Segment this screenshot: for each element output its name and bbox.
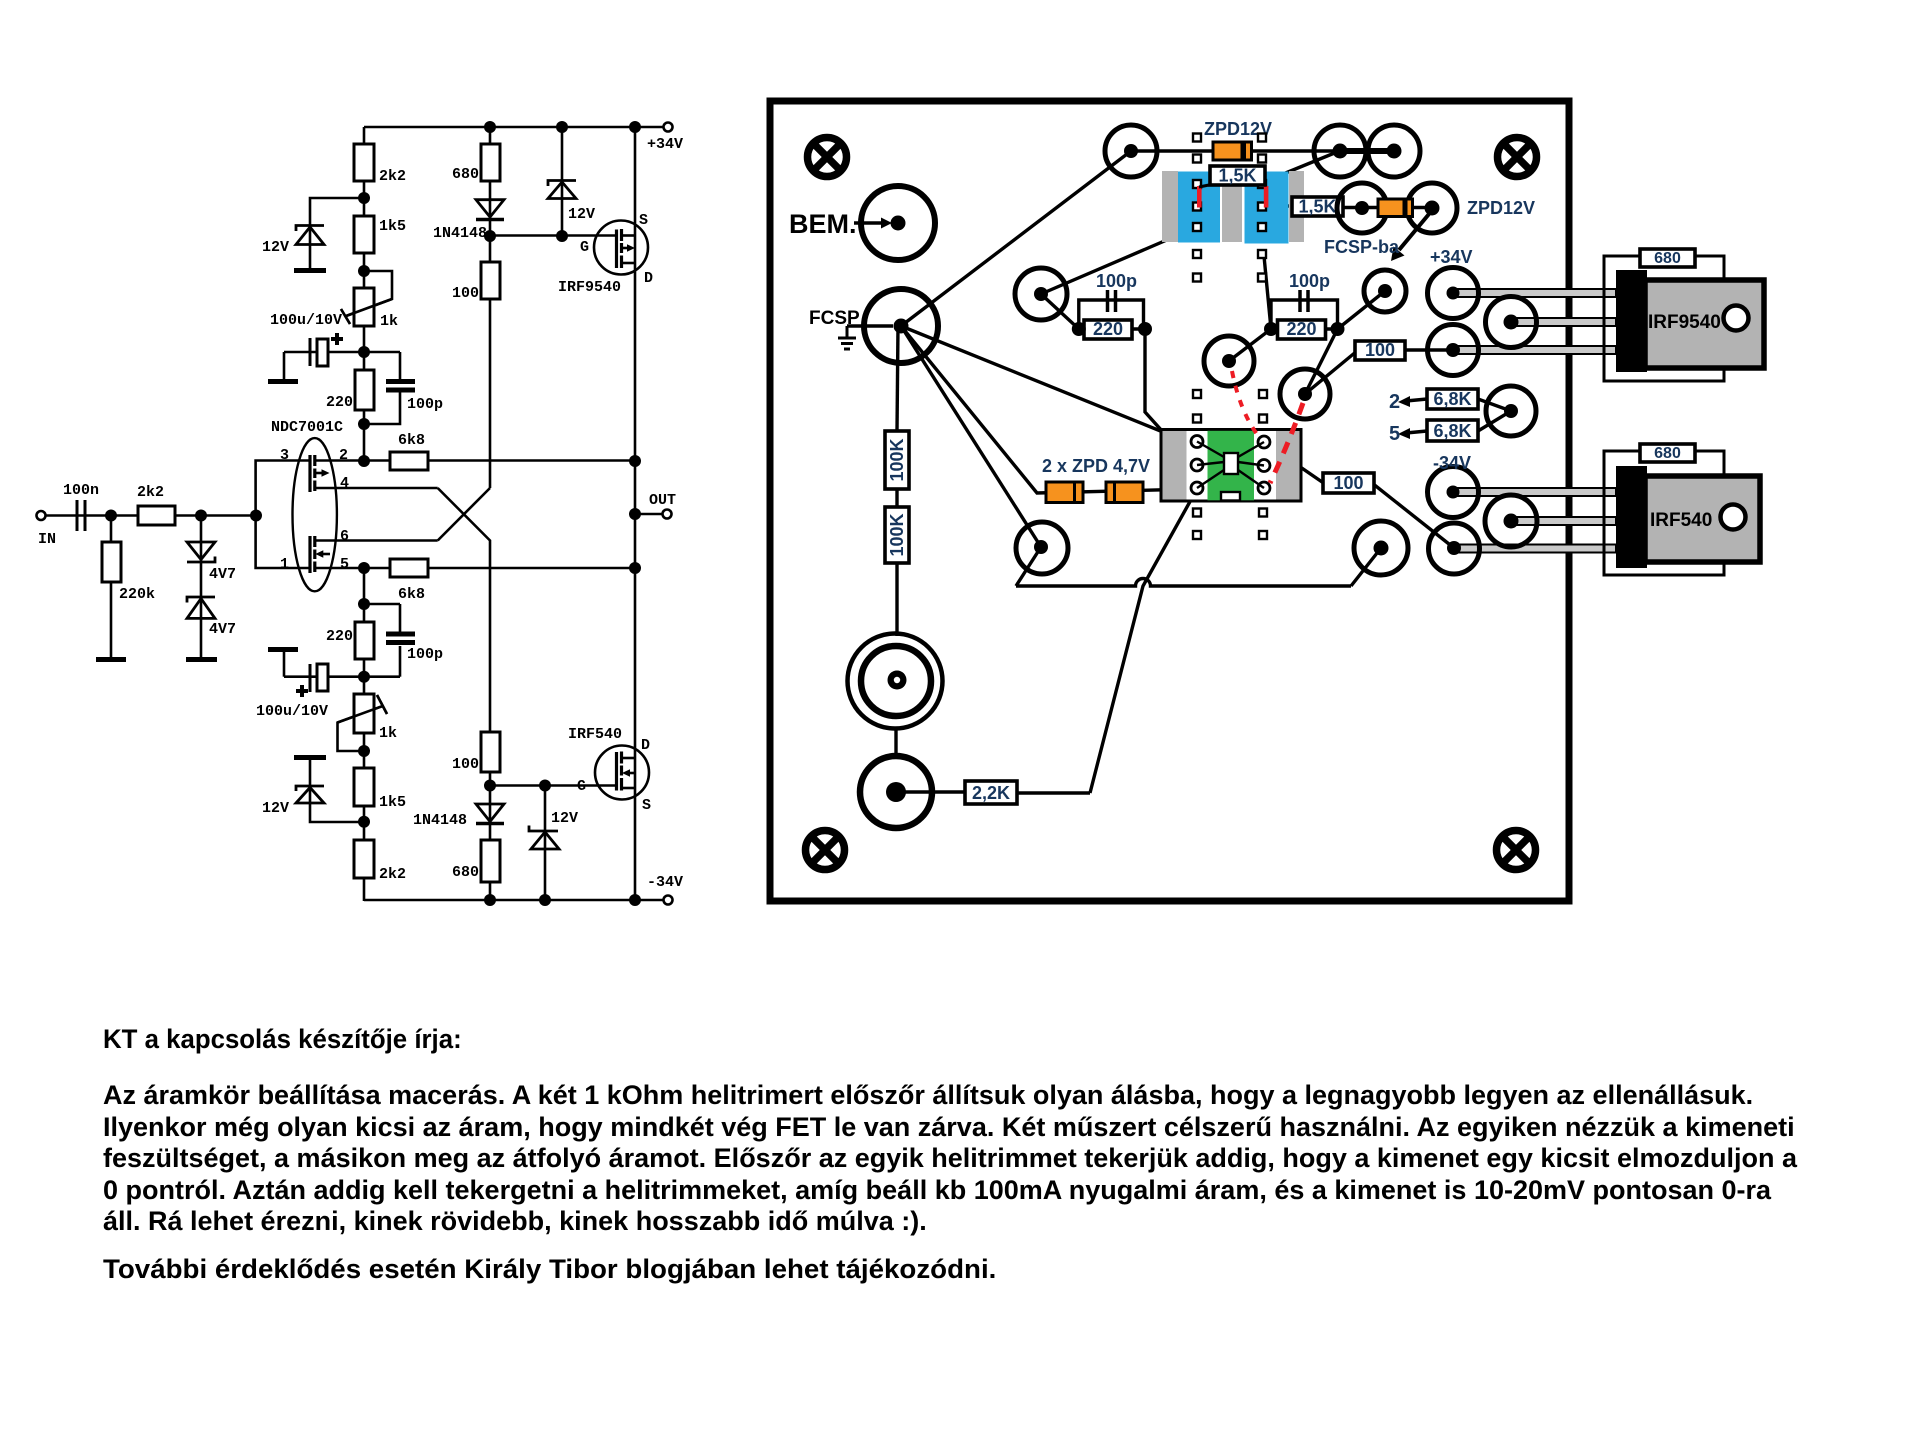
- ground elco top: [268, 379, 298, 384]
- svg-text:-34V: -34V: [647, 874, 683, 891]
- op-amp IC NDC7001C body: [293, 438, 337, 591]
- wire zener12V bottom-left branch: [310, 760, 364, 822]
- zener 12V top-left: [296, 226, 324, 245]
- capacitor 100p pcb right: [1300, 290, 1308, 312]
- resistor ZPD12V right: [1378, 199, 1413, 217]
- arrowhead 6,8K no2: [1398, 396, 1410, 407]
- capacitor 100u/10V top: [310, 333, 343, 366]
- mount hole bottom-left: [806, 831, 845, 870]
- wire FCSP down to 100K: [897, 326, 898, 431]
- svg-text:680: 680: [452, 166, 479, 183]
- label box 680 bottom pkg: [1640, 444, 1695, 462]
- trimmer block blue left gray: [1162, 171, 1178, 242]
- capacitor 100p bottom: [386, 632, 415, 646]
- wire pad to right220 left node: [1229, 329, 1271, 361]
- wire trimmer B wiper diagonal redraw: [338, 706, 382, 722]
- svg-text:1,5K: 1,5K: [1298, 197, 1336, 217]
- svg-text:S: S: [639, 212, 648, 229]
- svg-text:100K: 100K: [887, 513, 907, 556]
- svg-text:220: 220: [326, 394, 353, 411]
- svg-text:6k8: 6k8: [398, 432, 425, 449]
- wire pin5 line: [315, 567, 636, 570]
- svg-text:220k: 220k: [119, 586, 155, 603]
- red dashed link 2: [1270, 403, 1303, 483]
- terminal OUT: [663, 510, 672, 519]
- trimmer block blue right gray: [1289, 171, 1304, 242]
- svg-text:D: D: [641, 737, 650, 754]
- resistor 220 top: [355, 370, 374, 410]
- svg-text:680: 680: [1654, 250, 1681, 267]
- wire ring to 100 box2: [1264, 442, 1325, 484]
- wire trapezoid left: [1016, 547, 1041, 586]
- svg-text:680: 680: [452, 864, 479, 881]
- node rail-zener12V: [556, 121, 568, 133]
- label box 100 no1: [1355, 340, 1405, 360]
- pad 100p left: [1015, 268, 1067, 320]
- label box 100K no1: [885, 431, 909, 489]
- trimmer block blue square 1: [1178, 172, 1220, 243]
- node pin2 node: [358, 455, 370, 467]
- ground 220k: [96, 657, 126, 662]
- mount hole bottom-right: [1497, 831, 1536, 870]
- svg-text:S: S: [642, 797, 651, 814]
- svg-text:100: 100: [452, 756, 479, 773]
- trimmer 1k bottom: [354, 694, 374, 733]
- pad mid left: [1204, 336, 1254, 386]
- resistor 220 bottom: [355, 622, 374, 659]
- lead IRF9540 pin1: [1453, 289, 1616, 297]
- svg-text:NDC7001C: NDC7001C: [271, 419, 343, 436]
- wire 220 right bottom: [1271, 327, 1338, 330]
- wire pin4 line: [315, 487, 438, 490]
- svg-text:1k: 1k: [379, 725, 397, 742]
- pad IRF9540 mid: [1486, 297, 1537, 348]
- node bus pin2: [629, 455, 641, 467]
- lead IRF9540 pin3: [1453, 346, 1616, 354]
- resistor 100 top: [481, 262, 500, 299]
- wire FCSP fan to 220 merge: [901, 326, 1163, 432]
- trimmer block green right gray: [1276, 431, 1300, 500]
- wire 100p B bottom: [399, 646, 402, 677]
- node 2k2/1k5 zener tap: [358, 192, 370, 204]
- capacitor 100p pcb left: [1108, 290, 1116, 312]
- resistor 2k2 bottom: [354, 840, 374, 878]
- wire trimmer A wiper diagonal redraw: [338, 299, 393, 723]
- node rail-bus: [629, 121, 641, 133]
- label box 6,8K no2: [1427, 420, 1478, 441]
- trimmer block green outline: [1161, 430, 1301, 502]
- svg-text:6,8K: 6,8K: [1433, 389, 1471, 409]
- wire cross diagonal pin6 up: [438, 488, 490, 541]
- svg-text:2k2: 2k2: [137, 484, 164, 501]
- svg-text:2: 2: [339, 447, 348, 464]
- transistor IRF9540: [594, 221, 648, 275]
- wire 12V zener bottom column: [544, 786, 547, 901]
- svg-text:100u/10V: 100u/10V: [270, 312, 342, 329]
- resistor 680 top: [481, 144, 500, 181]
- wire FCSP to top pad: [901, 151, 1131, 326]
- pad trapezoid right: [1354, 521, 1408, 575]
- wire left pad to blue pad diagonal: [1041, 227, 1197, 294]
- wire big pad to lower pad: [894, 728, 897, 757]
- wire node352 horizontal: [284, 351, 400, 354]
- label box 2,2K: [965, 781, 1017, 804]
- mount hole top-right: [1498, 138, 1537, 177]
- svg-text:4: 4: [340, 475, 349, 492]
- trimmer block blue center gray: [1222, 181, 1242, 242]
- svg-text:12V: 12V: [262, 239, 289, 256]
- package IRF9540 body: [1616, 270, 1647, 372]
- wire 100 box1 to +34V pad3: [1403, 348, 1453, 351]
- wire top gate line: [490, 234, 617, 237]
- mount hole top-left: [808, 138, 847, 177]
- terminal IN: [37, 511, 46, 520]
- svg-text:-34V: -34V: [1433, 453, 1471, 473]
- svg-text:100: 100: [452, 285, 479, 302]
- ground zener bottom-left: [294, 755, 326, 760]
- wire elco B ground rise: [283, 651, 286, 677]
- package IRF9540 tab: [1645, 280, 1764, 368]
- svg-text:OUT: OUT: [649, 492, 676, 509]
- terminal -34V: [664, 896, 673, 905]
- transistor IC top FET: [310, 455, 330, 492]
- pad IRF540 low: [1429, 523, 1480, 574]
- pad IRF540 mid: [1485, 495, 1537, 547]
- svg-text:D: D: [644, 270, 653, 287]
- wire trimmer B wiper tick: [377, 695, 387, 714]
- pad FCSPba target: [1364, 270, 1406, 312]
- svg-text:+34V: +34V: [1430, 247, 1473, 267]
- pad FCSP: [864, 289, 938, 363]
- svg-text:5: 5: [1389, 423, 1400, 445]
- svg-text:100p: 100p: [1289, 271, 1330, 291]
- wire FCSP fan to ZPD corner: [901, 326, 1194, 493]
- wire FCSP fan to lower pad: [901, 326, 1041, 547]
- svg-text:100p: 100p: [407, 646, 443, 663]
- wire input line: [45, 514, 256, 517]
- zener 12V bottom-mid: [529, 826, 559, 850]
- lead IRF9540 pin2: [1511, 318, 1616, 326]
- wire pad to 100 box1: [1305, 351, 1357, 394]
- pad trapezoid left: [1016, 522, 1068, 574]
- node pin5 node: [358, 562, 370, 574]
- wire left pad to 220 left node: [1041, 294, 1079, 329]
- wire 1,5K no2 to ZPD12V right: [1340, 206, 1432, 209]
- wire bottom gate line: [490, 784, 617, 787]
- transistor IC bottom FET: [310, 536, 330, 573]
- ground elco bottom: [268, 647, 298, 652]
- trimmer block green notch: [1221, 492, 1240, 501]
- svg-text:1: 1: [280, 556, 289, 573]
- wire 1,5K no2 left stub: [1266, 204, 1295, 207]
- svg-text:ZPD12V: ZPD12V: [1467, 198, 1535, 218]
- node 1k5/trimmer wiper tap: [358, 265, 370, 277]
- svg-text:12V: 12V: [262, 800, 289, 817]
- zener 4V7 lower: [187, 597, 215, 618]
- wire right 220 to FCSPba pad: [1338, 291, 1386, 329]
- package IRF9540 hole: [1724, 306, 1749, 331]
- wire zener12V top-left branch: [310, 198, 364, 268]
- wire 100p-220 right loop: [1271, 300, 1338, 329]
- svg-text:100K: 100K: [887, 438, 907, 481]
- svg-text:100: 100: [1365, 340, 1395, 360]
- wire FCSP ground stub: [847, 324, 893, 327]
- resistor 1k5 bottom: [354, 768, 374, 806]
- node gate line A left: [484, 230, 496, 242]
- transistor IRF540: [595, 746, 649, 800]
- pad mid right: [1280, 369, 1330, 419]
- package IRF540 body: [1616, 466, 1647, 568]
- svg-text:220: 220: [1286, 319, 1316, 339]
- svg-text:6k8: 6k8: [398, 586, 425, 603]
- wire 100p B top: [399, 604, 402, 635]
- diode ZPD4,7 b: [1106, 482, 1143, 503]
- resistor 220k: [102, 542, 121, 582]
- resistor 100 bottom: [481, 732, 500, 772]
- svg-text:2k2: 2k2: [379, 168, 406, 185]
- svg-text:G: G: [577, 778, 586, 795]
- wire 2,2K diagonal to green with hop: [1090, 489, 1197, 793]
- wire pin2 line: [315, 459, 636, 462]
- svg-text:100p: 100p: [407, 396, 443, 413]
- svg-text:FCSP: FCSP: [809, 308, 860, 329]
- node elco node B: [358, 671, 370, 683]
- pad ZPD12V left: [1314, 125, 1366, 177]
- svg-text:2: 2: [1389, 391, 1400, 413]
- label box 6,8K no1: [1427, 389, 1478, 409]
- trimmer block green center: [1208, 431, 1255, 501]
- label box 220 left: [1084, 319, 1132, 339]
- wire cross diagonal pin4 down: [438, 488, 490, 901]
- pads square column right of blue: [1258, 134, 1266, 282]
- node rail-zener B: [539, 894, 551, 906]
- svg-text:IRF9540: IRF9540: [558, 279, 621, 296]
- label box 100K no2: [885, 507, 909, 563]
- svg-text:1,5K: 1,5K: [1218, 166, 1256, 186]
- svg-text:220: 220: [326, 628, 353, 645]
- pad top center: [1105, 125, 1157, 177]
- wire OUT stub: [635, 513, 662, 516]
- resistor 6k8 top: [390, 452, 428, 470]
- resistor 2k2 input: [138, 506, 175, 525]
- resistor 1k5 top: [354, 216, 374, 253]
- pad ZPD12V right: [1368, 125, 1420, 177]
- wire pad pair link top: [1340, 148, 1394, 154]
- diode ZPD4,7 a: [1046, 482, 1083, 503]
- wire -34V bottom rail: [364, 899, 664, 902]
- svg-text:1N4148: 1N4148: [433, 225, 487, 242]
- red mark right trimmer: [1264, 186, 1269, 208]
- capacitor 100u/10V bottom: [296, 664, 328, 697]
- node bus pin5: [629, 562, 641, 574]
- pad 6,8K: [1486, 386, 1536, 436]
- svg-text:12V: 12V: [551, 810, 578, 827]
- node input 4V7: [195, 510, 207, 522]
- diode 1N4148 top: [476, 200, 504, 220]
- node zener tap B: [358, 816, 370, 828]
- pad ZPD12V right pair a: [1337, 183, 1387, 233]
- wire blue pad to top pad diagonal: [1266, 152, 1337, 181]
- resistor 680 bottom: [481, 840, 500, 882]
- wire node676 horizontal: [284, 675, 400, 678]
- wire pad to 2,2K: [896, 790, 965, 793]
- node gate line B left: [484, 780, 496, 792]
- svg-text:G: G: [580, 239, 589, 256]
- wire 100p A: [399, 352, 402, 380]
- wire elco A ground drop: [283, 352, 286, 379]
- node 100p node A: [358, 418, 370, 430]
- svg-text:1k5: 1k5: [379, 218, 406, 235]
- node bus OUT: [629, 508, 641, 520]
- trimmer block green center square: [1224, 453, 1238, 474]
- wire 220 left node down to green: [1145, 329, 1197, 464]
- node gate line A zener: [556, 230, 568, 242]
- package IRF9540 outline: [1604, 256, 1724, 381]
- svg-text:1N4148: 1N4148: [413, 812, 467, 829]
- node input IC bus: [250, 510, 262, 522]
- wire 100 box2 to -34V pad3: [1372, 483, 1454, 548]
- svg-text:3: 3: [280, 447, 289, 464]
- diode 1N4148 bottom: [476, 804, 504, 824]
- wire right output bus: [634, 127, 637, 900]
- package IRF540 hole: [1721, 505, 1746, 530]
- label box 100 no2: [1323, 473, 1374, 493]
- pads ring green block: [1191, 436, 1270, 495]
- ground 4V7: [186, 657, 217, 662]
- package IRF540 tab: [1645, 476, 1760, 562]
- resistor 2k2 top: [354, 144, 374, 181]
- resistor 6k8 bottom: [390, 559, 428, 577]
- svg-text:100: 100: [1333, 473, 1363, 493]
- wire IC left gate bus: [256, 461, 310, 569]
- svg-text:FCSP-ba: FCSP-ba: [1324, 237, 1400, 257]
- wire main left column upper: [363, 127, 366, 461]
- svg-text:220: 220: [1093, 319, 1123, 339]
- PCB board outline: [770, 101, 1569, 901]
- pads square around green: [1193, 390, 1267, 539]
- wire +34V top rail: [364, 126, 664, 129]
- wire trimmer A wiper: [346, 271, 392, 316]
- label box 220 right: [1278, 319, 1326, 339]
- pad BEM: [854, 186, 935, 260]
- svg-text:6,8K: 6,8K: [1433, 421, 1471, 441]
- resistor ZPD12V top: [1213, 142, 1252, 160]
- capacitor 100p top: [386, 379, 415, 393]
- wire node604 horizontal: [364, 603, 400, 606]
- ground symbol FCSP: [838, 326, 856, 349]
- wire 100p A bottom: [364, 391, 400, 424]
- arrowhead 6,8K no5: [1398, 428, 1410, 439]
- wire trapezoid bottom: [1016, 579, 1351, 586]
- pads square column left of blue: [1193, 134, 1201, 282]
- pad +34V: [1428, 268, 1479, 319]
- red dashed link 1: [1232, 371, 1259, 437]
- trimmer block blue square 2: [1245, 172, 1289, 244]
- node rail-bus B: [629, 894, 641, 906]
- ground zener top-left: [294, 268, 326, 273]
- lead IRF540 pin3: [1454, 545, 1616, 553]
- node 100p node B top: [358, 598, 370, 610]
- zener 12V bottom-left: [296, 786, 324, 803]
- text heading: [103, 1024, 462, 1055]
- node gate line B zener: [539, 780, 551, 792]
- svg-text:2k2: 2k2: [379, 866, 406, 883]
- junction dots pcb 220 nodes: [1072, 322, 1345, 336]
- terminal +34V: [664, 123, 673, 132]
- wire trapezoid right: [1351, 548, 1381, 586]
- wire 100K chain gap: [895, 488, 898, 507]
- svg-text:IRF9540: IRF9540: [1648, 312, 1721, 333]
- wire trimmer A wiper tick: [341, 309, 350, 324]
- svg-text:100n: 100n: [63, 482, 99, 499]
- pad big double: [848, 634, 943, 729]
- text paragraph: [103, 1080, 1797, 1238]
- svg-text:IN: IN: [38, 531, 56, 548]
- svg-text:5: 5: [340, 556, 349, 573]
- node rail-680: [484, 121, 496, 133]
- svg-text:IRF540: IRF540: [568, 726, 622, 743]
- node elco node A: [358, 346, 370, 358]
- package IRF540 outline: [1604, 451, 1724, 575]
- wire 4V7 column: [200, 516, 203, 658]
- wire 6,8K arrow5: [1406, 431, 1427, 433]
- label box 1,5K no1: [1199, 166, 1265, 188]
- wire 6,8K pad leads: [1478, 399, 1511, 431]
- wire right 220 to blue pad: [1264, 256, 1271, 329]
- wire 2,2K right: [1015, 791, 1090, 794]
- trimmer block green left gray: [1163, 431, 1187, 500]
- lead IRF540 pin2: [1511, 517, 1616, 525]
- pad 2,2K: [860, 756, 932, 828]
- capacitor 100n input: [77, 500, 85, 531]
- node rail-680 B: [484, 894, 496, 906]
- node input 220k: [105, 510, 117, 522]
- PCB wires: [847, 151, 1511, 793]
- svg-text:2 x ZPD 4,7V: 2 x ZPD 4,7V: [1042, 456, 1150, 476]
- zener 12V top-right: [548, 181, 576, 199]
- zener 4V7 upper: [187, 542, 215, 562]
- svg-text:100p: 100p: [1096, 271, 1137, 291]
- label box 1,5K no2: [1292, 197, 1343, 217]
- pad ZPD12V right pair b: [1407, 183, 1457, 233]
- svg-text:+34V: +34V: [647, 136, 683, 153]
- wire 12V zener top column: [561, 127, 564, 236]
- svg-text:1k5: 1k5: [379, 794, 406, 811]
- wire 680/1N4148/100 column upper: [489, 127, 492, 488]
- wire 100K to big pad: [895, 562, 898, 636]
- label box 680 top pkg: [1640, 249, 1695, 267]
- svg-text:1k: 1k: [380, 313, 398, 330]
- svg-text:4V7: 4V7: [209, 621, 236, 638]
- svg-text:680: 680: [1654, 445, 1681, 462]
- wire main left column lower: [363, 568, 366, 901]
- red mark left trimmer: [1197, 186, 1202, 208]
- svg-text:2,2K: 2,2K: [972, 783, 1010, 803]
- wire 100p-220 left loop: [1079, 300, 1144, 329]
- wire 220k column: [110, 516, 113, 658]
- lead IRF540 pin1: [1453, 488, 1616, 496]
- wire pad to right220 right node: [1305, 329, 1338, 394]
- svg-text:100u/10V: 100u/10V: [256, 703, 328, 720]
- svg-text:IRF540: IRF540: [1650, 510, 1712, 531]
- svg-text:12V: 12V: [568, 206, 595, 223]
- wire pin6 line: [315, 539, 438, 542]
- wire trimmer B wiper: [338, 706, 382, 751]
- wire top pad row: [1131, 149, 1340, 152]
- svg-text:BEM.: BEM.: [789, 209, 857, 239]
- wire 6,8K arrow2: [1406, 399, 1427, 401]
- wire 220 left bottom: [1079, 327, 1145, 330]
